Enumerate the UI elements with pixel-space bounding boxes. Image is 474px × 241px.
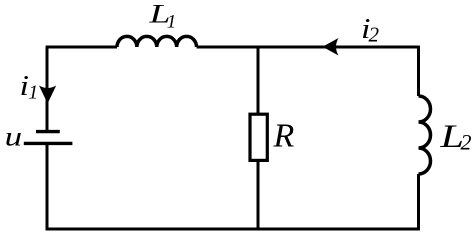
wire: right branch bottom (L2 to bottom corner)	[417, 174, 420, 230]
svg-text:R: R	[273, 117, 295, 154]
svg-text:2: 2	[461, 129, 472, 154]
wire: right branch top (corner to L2)	[417, 46, 420, 96]
svg-text:u: u	[5, 122, 23, 152]
wire: top-left segment	[46, 46, 117, 49]
wire: middle branch top (top wire to resistor)	[257, 46, 260, 113]
svg-text:1: 1	[28, 82, 38, 104]
voltage source u: short plate	[36, 130, 60, 133]
wire: middle branch bottom (resistor to bottom wire)	[257, 162, 260, 230]
wire: left branch top (corner to battery)	[46, 47, 49, 131]
arrow i1 (pointing down on left wire)	[39, 86, 56, 104]
inductor L1	[117, 36, 197, 47]
svg-text:1: 1	[167, 12, 177, 33]
resistor R	[250, 114, 267, 160]
inductor L2	[419, 96, 431, 174]
wire: top-right segment (L1 to right corner)	[197, 46, 419, 49]
svg-text:2: 2	[369, 23, 380, 47]
voltage source u: long plate	[24, 142, 73, 145]
wire: left branch bottom (battery to bottom corner)	[46, 144, 49, 231]
wire: bottom	[46, 228, 420, 231]
arrow i2 (pointing left on top wire)	[323, 38, 339, 56]
